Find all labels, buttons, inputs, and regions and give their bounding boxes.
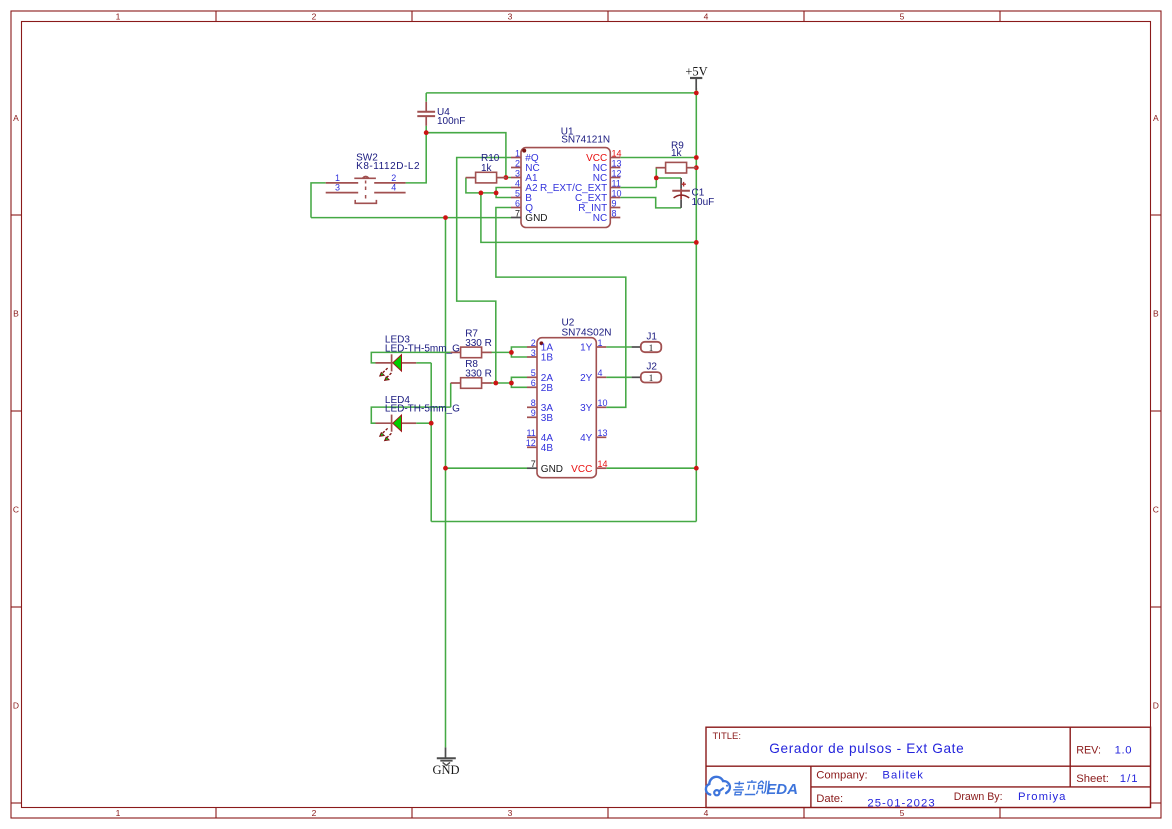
svg-text:LED-TH-5mm_G: LED-TH-5mm_G (385, 404, 460, 415)
svg-text:6: 6 (531, 378, 536, 388)
svg-text:4: 4 (391, 183, 396, 193)
U1 pin 9 R_INT (578, 198, 620, 214)
svg-text:12: 12 (526, 438, 536, 448)
svg-text:3B: 3B (541, 413, 554, 424)
junction (694, 155, 699, 160)
wire +5V top rail (426, 92, 696, 94)
svg-text:2: 2 (312, 12, 317, 22)
svg-text:330 R: 330 R (465, 369, 492, 380)
svg-text:Balitek: Balitek (882, 769, 924, 781)
svg-text:1Y: 1Y (580, 343, 593, 354)
junction (504, 175, 509, 180)
connector J1 (632, 331, 662, 354)
svg-text:14: 14 (612, 148, 622, 158)
U1 pin 14 VCC (586, 148, 621, 164)
wire U1 pin10 to C1 bottom (620, 198, 681, 208)
svg-text:Company:: Company: (816, 770, 868, 782)
wire R7 out to U2 pin2 (511, 347, 527, 352)
svg-text:Date:: Date: (816, 793, 843, 805)
svg-text:+5V: +5V (685, 64, 707, 78)
U2 pin 12 4B (526, 438, 554, 454)
wire U2 pin7 GND (446, 467, 528, 469)
svg-text:2: 2 (312, 808, 317, 818)
junction (479, 191, 484, 196)
svg-text:1/1: 1/1 (1120, 773, 1139, 785)
svg-text:A: A (13, 113, 19, 123)
U2 pin 6 2B (527, 378, 553, 394)
junction (694, 165, 699, 170)
U2 pin 4 2Y (580, 368, 606, 384)
capacitor C1 10uF (672, 178, 714, 208)
U2 pin 8 3A (527, 398, 553, 414)
U2 pin 2 1A (527, 338, 553, 354)
wire GND vertical (445, 218, 447, 748)
svg-text:1: 1 (116, 12, 121, 22)
wire R7 left to LED3 cathode (371, 352, 450, 363)
wire SW2 pin1 down (311, 183, 326, 218)
U1 pin 13 NC (593, 158, 622, 174)
U1 pin 5 B (511, 188, 532, 204)
svg-text:K8-1112D-L2: K8-1112D-L2 (356, 161, 420, 172)
IC U2 SN74S02N body (537, 318, 612, 478)
svg-text:11: 11 (612, 178, 621, 188)
title block (706, 727, 1151, 809)
svg-text:SN74S02N: SN74S02N (562, 327, 612, 338)
svg-text:100nF: 100nF (437, 116, 465, 127)
U2 pin 14 VCC (571, 459, 607, 475)
svg-text:10: 10 (612, 188, 622, 198)
svg-text:3Y: 3Y (580, 403, 593, 414)
svg-text:1: 1 (598, 338, 603, 348)
wire U1 pin14 VCC (620, 157, 696, 159)
wire R9 left to C1 node (655, 168, 657, 188)
svg-text:3: 3 (335, 183, 340, 193)
junction (494, 191, 499, 196)
svg-text:NC: NC (593, 213, 607, 224)
svg-text:D: D (1153, 701, 1159, 711)
svg-text:LED-TH-5mm_G: LED-TH-5mm_G (385, 343, 460, 354)
junction (493, 381, 498, 386)
junction (424, 130, 429, 135)
connector J2 (632, 362, 662, 385)
svg-text:TITLE:: TITLE: (713, 731, 742, 742)
wire A2 row to U1 pin5 (496, 193, 511, 198)
U1 pin 1 #Q (511, 148, 539, 164)
svg-text:REV:: REV: (1076, 744, 1101, 756)
wire net A1 to SW2 pin2 (406, 133, 427, 183)
svg-text:5: 5 (515, 188, 520, 198)
wire R8 left down (450, 383, 452, 407)
LED LED3 LED-TH-5mm_G (376, 335, 461, 382)
svg-text:2B: 2B (541, 383, 554, 394)
svg-text:SN74121N: SN74121N (561, 134, 610, 145)
wire net #Q to R8 right (491, 382, 512, 384)
wire R8 to LED4 cathode (371, 407, 450, 423)
svg-text:3: 3 (515, 168, 520, 178)
svg-text:1B: 1B (541, 353, 554, 364)
U1 pin 7 GND (511, 208, 548, 224)
wire R7 out to junction (491, 351, 512, 353)
U1 pin 12 NC (593, 168, 622, 184)
svg-text:11: 11 (526, 428, 535, 438)
resistor R10 (466, 153, 507, 183)
wire GND horizontal (311, 217, 511, 219)
U2 pin 9 3B (527, 408, 553, 424)
junction (509, 381, 514, 386)
svg-text:J2: J2 (646, 362, 657, 373)
U2 pin 5 2A (527, 368, 553, 384)
U1 pin 8 NC (593, 208, 621, 224)
svg-text:12: 12 (612, 168, 622, 178)
U2 pin 13 4Y (580, 428, 607, 444)
U1 pin 6 Q (511, 198, 533, 214)
svg-text:10uF: 10uF (692, 197, 715, 208)
wire +5V vertical rail (695, 88, 697, 522)
resistor R7 (451, 328, 492, 357)
capacitor U4 100nF (417, 102, 465, 127)
svg-text:1: 1 (515, 148, 520, 158)
U2 pin 3 1B (527, 348, 553, 364)
svg-text:3: 3 (531, 348, 536, 358)
svg-text:9: 9 (612, 198, 617, 208)
svg-text:7: 7 (531, 459, 536, 469)
switch SW2 K8-1112D-L2 (326, 153, 420, 204)
U1 pin 3 A1 (511, 168, 538, 184)
svg-text:1: 1 (649, 344, 654, 354)
svg-text:1k: 1k (671, 148, 683, 159)
wire net A1: U4 to R10/pin3 (426, 126, 511, 178)
svg-text:J1: J1 (646, 331, 657, 342)
resistor R8 (451, 359, 492, 388)
svg-text:5: 5 (900, 12, 905, 22)
wire C1 node to C1 top (656, 177, 681, 179)
wire A2/B net to +5V rail (481, 193, 696, 243)
junction (509, 350, 514, 355)
svg-text:B: B (13, 309, 19, 319)
U2 pin 10 3Y (580, 398, 607, 414)
svg-text:3: 3 (508, 808, 513, 818)
svg-text:C: C (13, 505, 19, 515)
svg-text:14: 14 (598, 459, 608, 469)
junction (694, 466, 699, 471)
svg-text:8: 8 (612, 208, 617, 218)
svg-text:C: C (1153, 505, 1159, 515)
svg-text:1k: 1k (481, 163, 493, 174)
junction (654, 176, 659, 181)
svg-text:8: 8 (531, 398, 536, 408)
wire R8 out to U2 pin6 (511, 383, 527, 387)
svg-text:GND: GND (541, 464, 563, 475)
svg-text:D: D (13, 701, 19, 711)
wire net #Q from U1 pin1 (457, 158, 511, 384)
svg-text:330 R: 330 R (465, 338, 492, 349)
svg-text:5: 5 (900, 808, 905, 818)
wire U4 top to rail (425, 93, 427, 102)
svg-text:4: 4 (704, 808, 709, 818)
svg-text:7: 7 (515, 208, 520, 218)
svg-text:B: B (1153, 309, 1159, 319)
svg-text:4B: 4B (541, 443, 554, 454)
svg-text:1: 1 (116, 808, 121, 818)
wire R10 left to A2 row (466, 178, 496, 193)
U1 pin 11 R_EXT/C_EXT (540, 178, 621, 194)
svg-text:VCC: VCC (571, 464, 592, 475)
logo JLC EDA (706, 777, 798, 798)
svg-text:4: 4 (515, 178, 520, 188)
junction (443, 466, 448, 471)
svg-text:GND: GND (525, 213, 547, 224)
wire LED4 anode (416, 422, 431, 424)
svg-text:6: 6 (515, 198, 520, 208)
power flag +5V (685, 64, 707, 90)
svg-text:2: 2 (531, 338, 536, 348)
junction (694, 91, 699, 96)
junction (429, 421, 434, 426)
resistor R9 (656, 141, 697, 173)
ground GND (432, 747, 459, 776)
svg-text:9: 9 (531, 408, 536, 418)
U2 pin 1 1Y (580, 338, 606, 354)
junction (443, 215, 448, 220)
wire +5V bottom rail (431, 521, 696, 523)
svg-text:Promiya: Promiya (1018, 791, 1066, 803)
wire U1 pin11 to C1 node (620, 187, 656, 189)
svg-text:GND: GND (432, 763, 459, 777)
svg-text:Sheet:: Sheet: (1076, 773, 1109, 785)
svg-text:2: 2 (515, 158, 520, 168)
svg-text:1: 1 (335, 173, 340, 183)
svg-text:1.0: 1.0 (1115, 744, 1133, 756)
svg-text:Drawn By:: Drawn By: (954, 791, 1003, 803)
wire U2 pin1 1Y to J1 (606, 346, 631, 348)
LED LED4 LED-TH-5mm_G (376, 395, 461, 442)
wire net Q from U1 pin6 (496, 208, 626, 408)
svg-text:13: 13 (612, 158, 622, 168)
wire U2 pin4 2Y to J2 (606, 376, 631, 378)
svg-text:1: 1 (649, 374, 654, 384)
U1 pin 2 NC (511, 158, 540, 174)
wire LED3 anode (416, 362, 431, 364)
wire LED anode vertical (430, 363, 432, 522)
op-amp U1 SN74121N body (521, 127, 610, 228)
svg-text:4Y: 4Y (580, 433, 593, 444)
junction (694, 240, 699, 245)
svg-text:4: 4 (598, 368, 603, 378)
wire R7 out to U2 pin3 (511, 352, 527, 357)
svg-text:2Y: 2Y (580, 373, 593, 384)
svg-text:5: 5 (531, 368, 536, 378)
U2 pin 7 GND (527, 459, 563, 475)
U1 pin 10 C_EXT (575, 188, 622, 204)
svg-text:4: 4 (704, 12, 709, 22)
svg-text:3: 3 (508, 12, 513, 22)
svg-text:10: 10 (598, 398, 608, 408)
svg-text:13: 13 (598, 428, 608, 438)
U2 pin 11 4A (526, 428, 553, 444)
wire A2 row to U1 pin4 (496, 188, 511, 193)
svg-text:A: A (1153, 113, 1159, 123)
svg-text:EDA: EDA (766, 781, 798, 798)
svg-text:2: 2 (391, 173, 396, 183)
U1 pin 4 A2 (511, 178, 538, 194)
svg-text:25-01-2023: 25-01-2023 (867, 797, 935, 809)
wire R8 out to U2 pin5 (511, 377, 527, 383)
wire U2 pin14 VCC (606, 467, 696, 469)
svg-text:Gerador de pulsos - Ext Gate: Gerador de pulsos - Ext Gate (769, 741, 964, 756)
